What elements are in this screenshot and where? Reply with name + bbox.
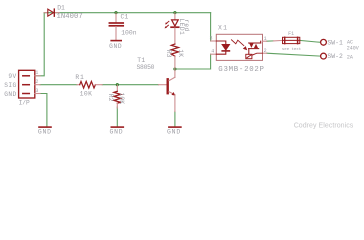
wire top rail 9V (44, 12, 210, 14)
svg-text:R3: R3 (165, 50, 172, 58)
svg-text:SW-2: SW-2 (327, 53, 343, 60)
svg-text:red: red (183, 19, 190, 31)
svg-text:GND: GND (38, 129, 52, 136)
svg-text:G3MB-202P: G3MB-202P (218, 66, 264, 74)
wire emitter to ground (174, 112, 176, 127)
svg-text:R2: R2 (107, 94, 114, 102)
wire fuse to SW-1 (300, 40, 321, 42)
resistor R3 1K (165, 44, 184, 69)
node junction dot collector (173, 67, 176, 70)
svg-text:S8050: S8050 (137, 64, 155, 71)
wire connector pin 3 to ground (40, 94, 47, 127)
opto coupling arrow (232, 40, 248, 50)
capacitor C1 (109, 13, 136, 40)
svg-text:X1: X1 (218, 25, 228, 32)
opto input LED (216, 41, 229, 54)
svg-text:SW-1: SW-1 (327, 39, 343, 46)
connector I/P (4, 70, 40, 107)
svg-text:R1: R1 (75, 74, 84, 81)
pin 2 stub (35, 84, 40, 86)
svg-text:1K: 1K (177, 49, 184, 57)
pin SW-2 (321, 53, 353, 60)
zero cross box (246, 53, 263, 59)
svg-text:GND: GND (167, 129, 181, 136)
wire rail drop to opto pin 3 (210, 13, 212, 41)
node junction dot C1/top rail (114, 11, 117, 14)
svg-text:1: 1 (264, 36, 267, 42)
svg-text:GND: GND (109, 129, 123, 136)
svg-text:2A: 2A (347, 54, 353, 60)
diode D1 (44, 5, 82, 22)
svg-text:240V: 240V (347, 46, 359, 52)
svg-text:3: 3 (210, 36, 213, 42)
ground GND under R2 (109, 127, 123, 136)
node junction dot LED chain/top rail (173, 11, 176, 14)
collector (169, 77, 175, 80)
triac output (249, 41, 261, 54)
pin 2 stub (263, 52, 267, 54)
resistor R1 10K (75, 74, 102, 97)
svg-text:2: 2 (35, 79, 38, 85)
pin SW-1 (321, 39, 359, 51)
svg-text:see text: see text (282, 48, 301, 52)
LED emission arrows (165, 21, 169, 28)
svg-text:GND: GND (4, 91, 17, 98)
svg-text:1: 1 (35, 70, 38, 76)
wire R2 to ground (116, 107, 118, 126)
pin 3 stub (211, 40, 217, 42)
LED LED1 red (165, 13, 190, 44)
svg-text:SIG: SIG (4, 82, 17, 89)
wire opto pin 4 to transistor collector (175, 54, 211, 69)
svg-text:3: 3 (35, 88, 38, 94)
svg-text:1N4007: 1N4007 (57, 13, 83, 21)
svg-text:4: 4 (211, 48, 214, 54)
wire R1 to R2 junction to transistor base (102, 84, 158, 86)
transistor T1 S8050 (137, 57, 176, 111)
svg-text:D1: D1 (57, 5, 65, 12)
svg-text:9V: 9V (8, 73, 16, 80)
svg-text:C1: C1 (121, 13, 129, 20)
wire SIG row: connector pin 2 to R1 (40, 84, 77, 86)
pin 3 stub (35, 93, 40, 95)
ground GND from connector pin 3 (38, 127, 52, 136)
emitter with arrow (169, 92, 175, 95)
ground GND under T1 emitter (167, 127, 181, 136)
resistor R2 10K (107, 85, 125, 108)
fuse F1 (282, 31, 301, 52)
svg-text:GND: GND (109, 43, 122, 50)
pin 1 stub (263, 40, 267, 42)
node junction dot R2/SIG row (116, 83, 119, 86)
svg-text:AC: AC (347, 39, 353, 45)
ground GND under C1 (109, 41, 122, 50)
svg-text:100n: 100n (121, 29, 137, 36)
opto SSR X1 G3MB-202P (210, 25, 267, 74)
svg-text:I/P: I/P (19, 100, 30, 107)
svg-text:10K: 10K (80, 91, 93, 98)
pin 1 stub (35, 75, 40, 77)
wire opto pin 2 to SW-2 (267, 53, 321, 56)
svg-text:Codrey Electronics: Codrey Electronics (294, 122, 354, 129)
svg-text:F1: F1 (288, 31, 294, 37)
wire left vertical to connector pin 1 (35, 13, 44, 76)
svg-text:2: 2 (264, 48, 267, 54)
svg-text:10K: 10K (118, 93, 125, 105)
wire opto pin 1 to fuse (267, 40, 274, 42)
pin 4 stub (211, 53, 217, 55)
